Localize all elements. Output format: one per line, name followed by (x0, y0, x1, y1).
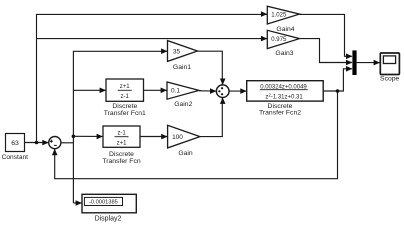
wire (200, 98, 222, 137)
svg-text:Gain4: Gain4 (276, 26, 294, 33)
wire (73, 135, 102, 137)
gain block "0.1" Gain2 (167, 82, 199, 108)
svg-text:Transfer Fcn2: Transfer Fcn2 (259, 110, 301, 117)
wire (140, 136, 167, 138)
svg-text:35: 35 (173, 49, 181, 56)
svg-text:100: 100 (172, 134, 183, 141)
wire (357, 62, 380, 64)
sum junction S1 (49, 137, 61, 149)
constant block "63" (2, 134, 29, 162)
svg-text:z+1: z+1 (117, 141, 128, 147)
wire (198, 51, 223, 85)
arrowheads (261, 11, 267, 17)
wire (73, 51, 167, 203)
svg-text:Transfer Fcn1: Transfer Fcn1 (104, 110, 146, 117)
svg-text:z2-1.31z+0.31: z2-1.31z+0.31 (265, 93, 303, 101)
svg-text:0.975: 0.975 (271, 37, 287, 43)
wire (37, 14, 352, 142)
svg-text:0.1: 0.1 (171, 88, 180, 95)
svg-text:z-1: z-1 (117, 130, 126, 136)
gain block "35" Gain1 (168, 41, 198, 71)
mux (352, 50, 356, 75)
node: TF2 output branch (336, 89, 340, 93)
svg-text:1.025: 1.025 (271, 13, 287, 19)
wire (55, 91, 338, 179)
svg-text:63: 63 (11, 140, 19, 147)
wire (73, 89, 105, 91)
svg-text:Gain3: Gain3 (275, 50, 293, 57)
gain block "100" Gain (168, 125, 200, 157)
svg-text:-0.0001385: -0.0001385 (89, 200, 118, 206)
node: branch to transfer fcn (72, 135, 76, 139)
wire (229, 90, 246, 92)
gain block "1.025" Gain4 (267, 6, 299, 33)
sum junction S2 (216, 85, 229, 98)
svg-text:Discrete: Discrete (109, 151, 134, 158)
discrete transfer fcn block (z-1)/(z+1) (102, 126, 140, 165)
svg-text:Scope: Scope (380, 75, 399, 82)
svg-text:Transfer Fcn: Transfer Fcn (102, 158, 140, 165)
scope block (380, 53, 399, 82)
wire (144, 89, 167, 91)
wire (199, 90, 216, 92)
svg-text:z-1: z-1 (121, 94, 130, 100)
svg-text:Gain: Gain (178, 150, 193, 157)
svg-text:Display2: Display2 (95, 216, 122, 223)
svg-text:Constant: Constant (2, 154, 29, 161)
discrete transfer fcn1 block (z+1)/(z-1) (104, 79, 146, 117)
svg-text:Discrete: Discrete (112, 103, 137, 110)
wire (61, 142, 73, 144)
wire (73, 202, 81, 204)
node: branch to gains from constant (35, 141, 39, 145)
svg-text:Gain2: Gain2 (174, 101, 192, 108)
discrete transfer fcn2 block (247, 81, 324, 117)
gain block "0.975" Gain3 (267, 30, 299, 57)
display2 block (82, 194, 136, 222)
wire (37, 39, 352, 63)
svg-text:Gain1: Gain1 (173, 64, 191, 71)
wire (25, 142, 49, 144)
wire (323, 69, 352, 91)
svg-text:z+1: z+1 (120, 84, 131, 90)
